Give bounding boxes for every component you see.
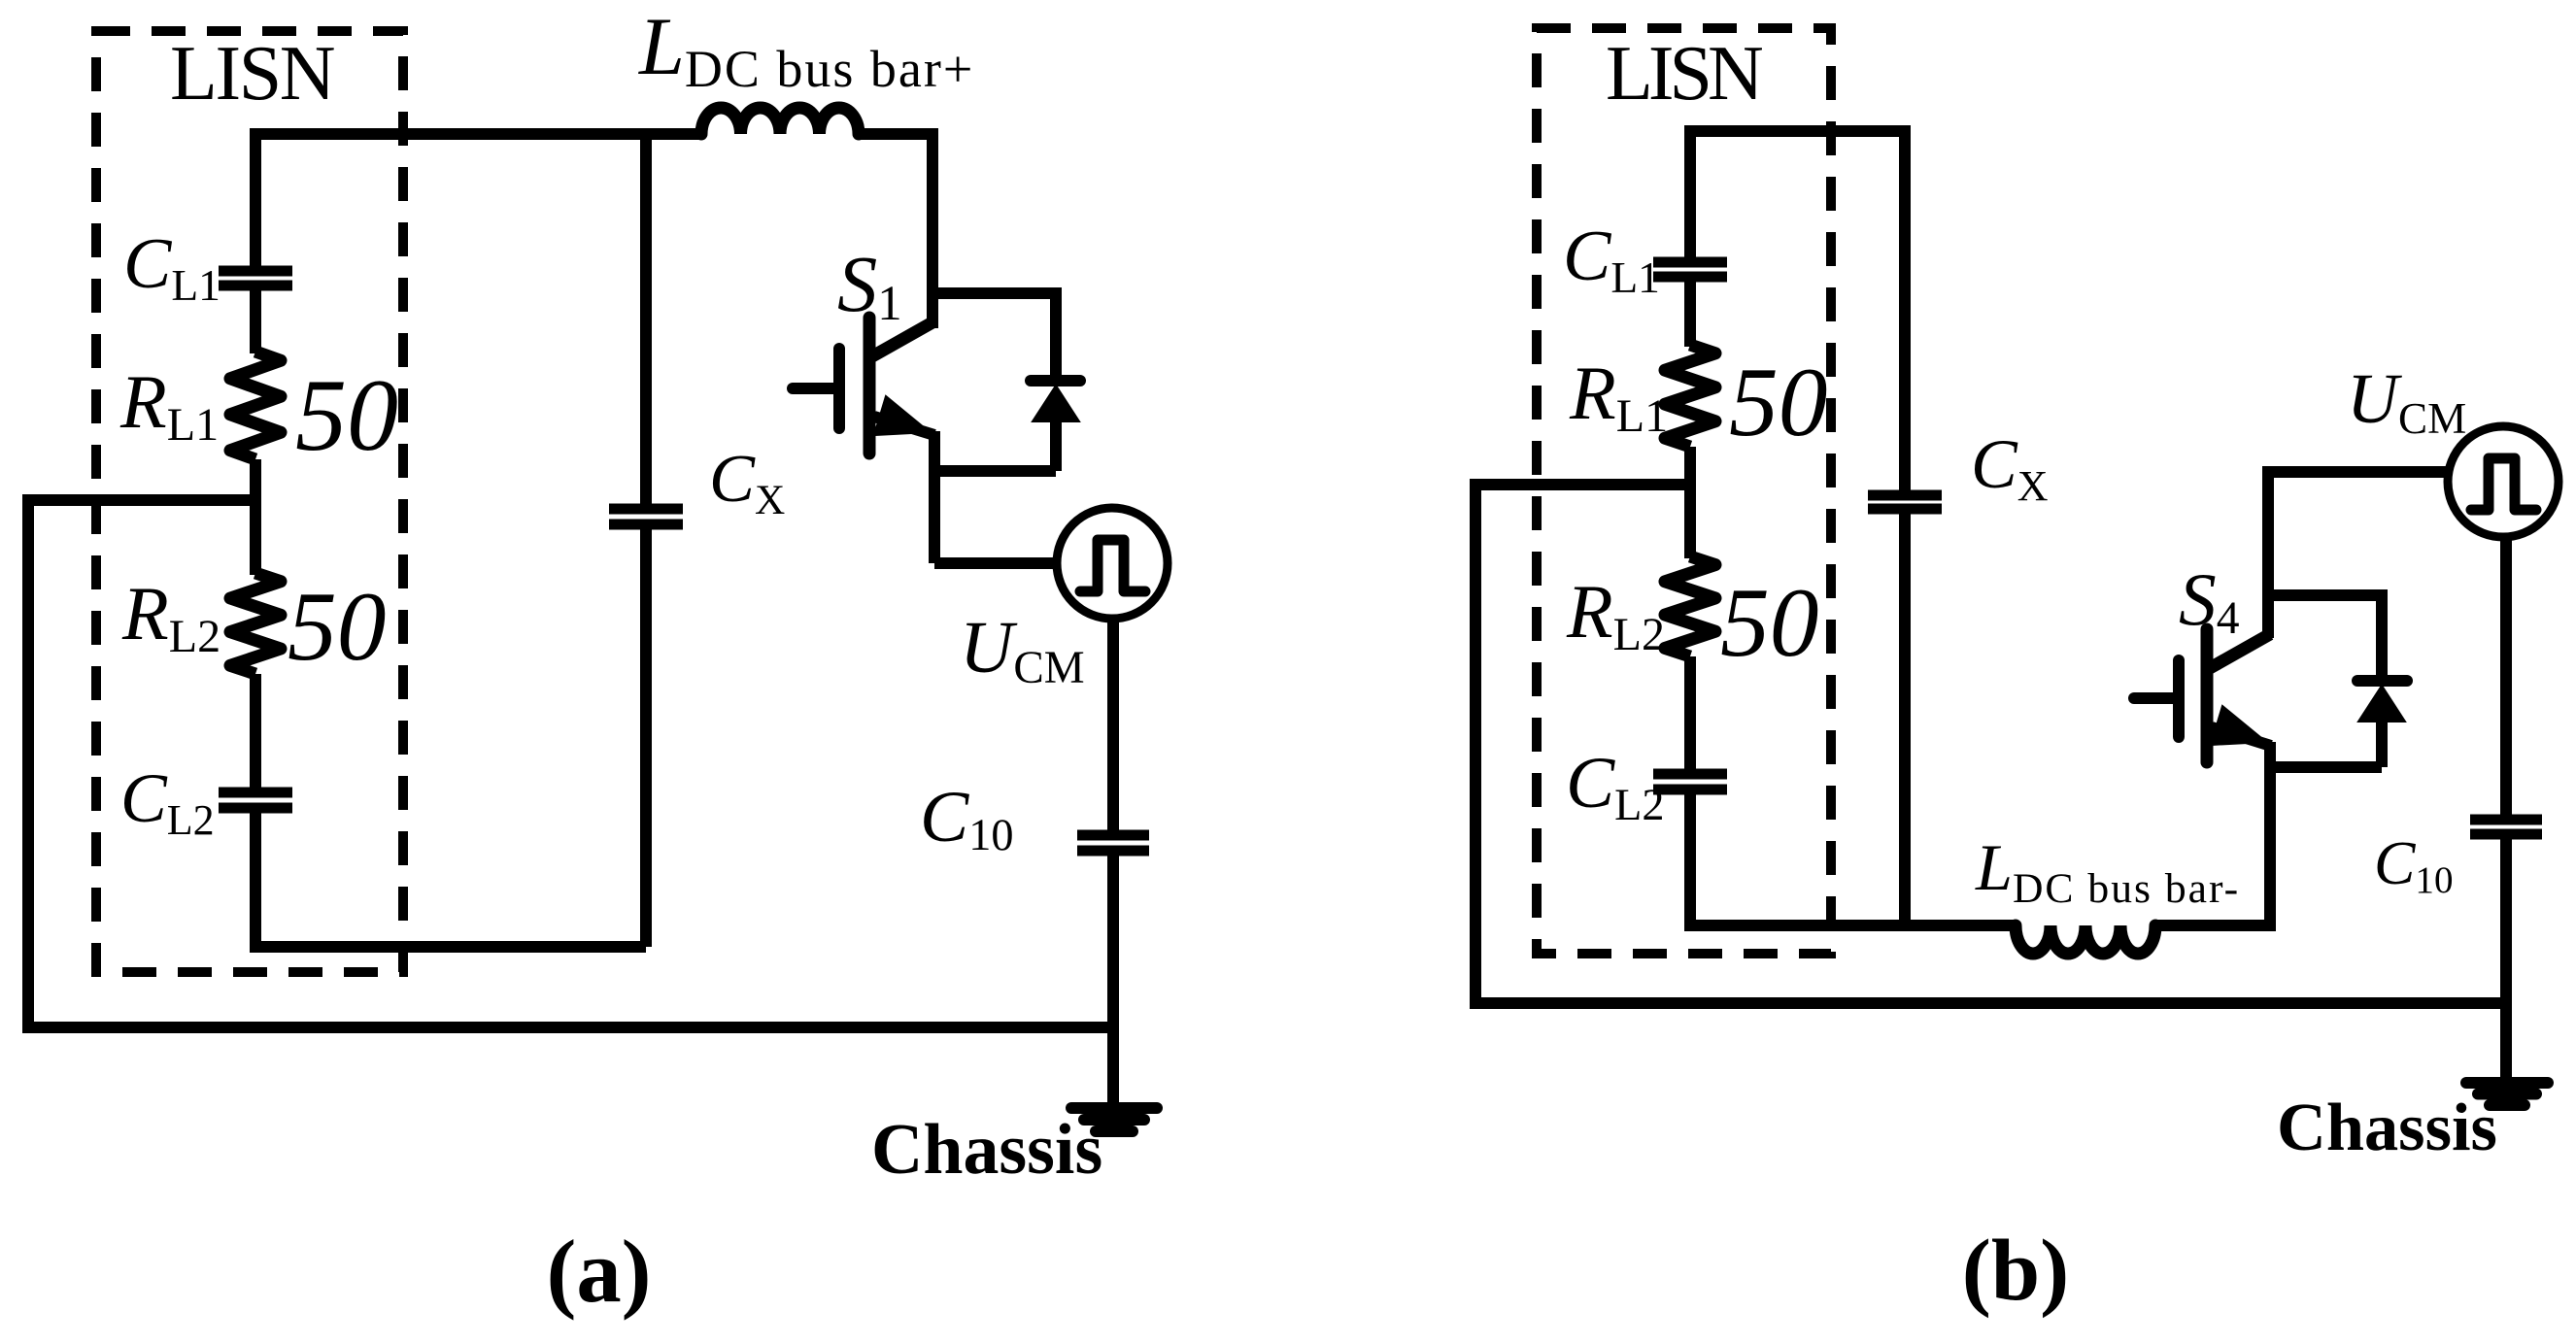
wire CX branch lower (b) [1899, 514, 1911, 925]
svg-text:(b): (b) [1962, 1221, 2069, 1319]
transistor S4 body bar [2201, 629, 2214, 762]
wire diode D1 anode lead (a) [1050, 421, 1062, 471]
wire CL2 to bottom rail (a) [255, 813, 646, 947]
resistor RL2 (a) [230, 573, 281, 674]
transistor S4 emitter diagonal [2212, 727, 2271, 746]
wire RL2 to CL2 (b) [1684, 656, 1696, 769]
transistor S1 collector diagonal [872, 322, 932, 356]
diode D1 triangle [1033, 386, 1079, 421]
capacitor C10 (a) [1077, 830, 1149, 841]
source UCM circle (a) [1057, 508, 1168, 619]
wire CX branch upper (a) [640, 134, 652, 504]
capacitor CX (a) [609, 504, 683, 515]
capacitor CL1 (b) [1653, 257, 1727, 268]
transistor S4 emitter arrow [2211, 706, 2266, 745]
wire C10 to ground (b) [2500, 839, 2512, 1083]
LISN enclosure box (a) [96, 31, 403, 972]
resistor RL1 (b) [1665, 345, 1715, 447]
ground chassis symbol (a) [1071, 1102, 1157, 1114]
LISN enclosure box (b) [1537, 28, 1831, 954]
wire inductor to S4 emitter (b) [2155, 742, 2270, 925]
wire CL1 to RL1 (b) [1684, 282, 1696, 347]
wire CL1 to RL1 (a) [250, 290, 261, 353]
svg-text:50: 50 [295, 358, 398, 472]
capacitor CX (b) [1868, 490, 1942, 501]
inductor L_DC bus bar+ [701, 108, 859, 134]
wire emitter to diode anode (b) [2270, 761, 2382, 773]
wire emitter to diode anode (a) [934, 465, 1056, 477]
wire UCM to C10 (b) [2500, 537, 2512, 815]
wire C10 to ground (a) [1107, 856, 1119, 1108]
capacitor CL2 (a) [219, 788, 292, 798]
wire outer return loop (a) [28, 500, 1113, 1027]
diode D1 cathode bar [1031, 375, 1080, 386]
wire S4 collector to diode cathode (b) [2268, 595, 2382, 676]
transistor S1 body bar [864, 318, 876, 454]
wire emitter to UCM source (a) [934, 557, 1059, 569]
svg-text:Chassis: Chassis [871, 1109, 1102, 1189]
capacitor CL1 (a) [219, 266, 292, 277]
diode D4 cathode bar [2357, 675, 2407, 687]
wire S1 emitter node (a) [929, 431, 940, 563]
wire UCM to C10 (a) [1107, 619, 1119, 830]
resistor RL2 (b) [1665, 556, 1715, 656]
wire RL2 to CL2 (a) [250, 674, 261, 788]
svg-text:Chassis: Chassis [2277, 1090, 2497, 1165]
svg-text:(a): (a) [546, 1222, 651, 1322]
capacitor CL2 (b) [1653, 769, 1727, 780]
svg-text:LISN: LISN [170, 31, 334, 117]
wire RL1 to RL2 (a) [250, 459, 261, 575]
capacitor C10 (b) [2470, 815, 2542, 825]
wire RL1 to RL2 (b) [1684, 447, 1696, 558]
diode D4 triangle [2358, 686, 2405, 722]
wire diode D4 anode lead (b) [2376, 722, 2388, 767]
inductor L_DC bus bar- [2016, 925, 2155, 954]
ground chassis symbol (b) [2466, 1077, 2548, 1089]
wire outer return loop (b) [1475, 485, 2506, 1003]
transistor S1 gate lead [793, 383, 834, 394]
transistor S4 gate bar [2173, 660, 2185, 737]
resistor RL1 (a) [230, 352, 281, 459]
transistor S4 collector diagonal [2210, 634, 2270, 668]
svg-text:50: 50 [288, 572, 387, 681]
svg-text:LISN: LISN [1606, 31, 1762, 117]
transistor S1 gate bar [833, 349, 845, 428]
svg-text:50: 50 [1729, 348, 1828, 456]
transistor S1 emitter arrow [874, 396, 930, 435]
wire CX branch lower (a) [640, 529, 652, 947]
wire S4 collector to UCM (b) [2268, 472, 2449, 638]
svg-text:50: 50 [1720, 568, 1819, 677]
transistor S4 gate lead [2134, 692, 2174, 704]
source UCM circle (b) [2448, 426, 2559, 537]
wire inductor to S1 collector (a) [859, 134, 932, 328]
wire LISN top rail (a) [255, 134, 701, 266]
transistor S1 emitter diagonal [874, 417, 934, 435]
wire S1 collector to diode cathode (a) [932, 293, 1056, 375]
wire CL2 to bottom rail (b) [1690, 794, 2016, 925]
wire top rail to CX branch (b) [1690, 131, 1905, 490]
